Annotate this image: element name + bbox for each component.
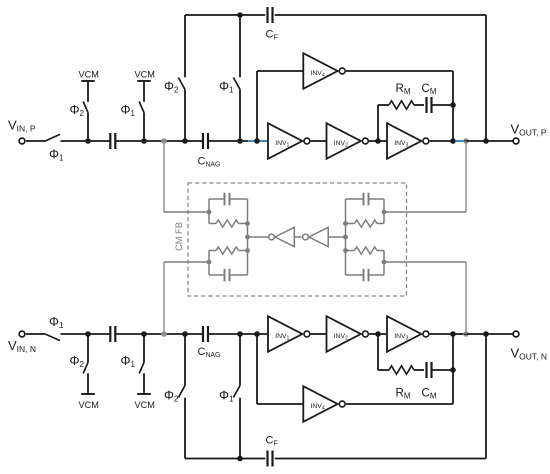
output terminal VOUT,N: [513, 331, 519, 337]
wire (gray, upper entry): [384, 211, 466, 213]
resistor RM: [389, 101, 414, 109]
wire (gray, CMFB feed to top line): [163, 141, 165, 212]
wire (gray, top output sense): [465, 141, 467, 212]
node: [237, 12, 243, 18]
node: [483, 331, 489, 337]
wire: [414, 369, 424, 371]
capacitor (CMFB lower): [363, 269, 365, 282]
wire: [275, 14, 486, 16]
wire: [452, 334, 454, 404]
wire: [465, 140, 514, 142]
svg-text:CM FB: CM FB: [174, 222, 184, 251]
wire: [432, 104, 454, 106]
svg-text:INV4: INV4: [311, 403, 325, 411]
node: [237, 138, 243, 144]
wire (gray): [230, 198, 248, 200]
node: [182, 331, 188, 337]
wire: [209, 140, 248, 142]
node: [85, 138, 91, 144]
svg-text:INV1: INV1: [275, 333, 289, 341]
node: [450, 138, 456, 144]
wire (gray): [230, 274, 248, 276]
wire: [369, 333, 387, 335]
capacitor CF: [266, 7, 268, 23]
inverter INV1: [268, 316, 302, 352]
wire (gray, CMFB feed to bottom line): [163, 262, 165, 334]
wire: [377, 334, 379, 370]
capacitor (CMFB upper): [224, 193, 226, 206]
svg-text:INV3: INV3: [394, 140, 408, 148]
switch Φ1 (input): [46, 134, 60, 140]
switch Φ1 (to VCM): [143, 334, 145, 362]
wire (gray): [248, 236, 269, 238]
svg-text:INV2: INV2: [334, 333, 348, 341]
wire: [257, 403, 303, 405]
switch Φ2 (to rail): [184, 398, 186, 459]
node: [141, 331, 147, 337]
capacitor (CMFB lower): [224, 269, 226, 282]
capacitor CF: [266, 451, 268, 467]
wire: [61, 333, 111, 335]
wire (gray): [208, 199, 210, 224]
node: [254, 331, 260, 337]
wire: [430, 140, 453, 142]
wire (gray): [383, 251, 385, 276]
output terminal VOUT,P: [513, 138, 519, 144]
inverter INV1: [268, 123, 302, 159]
CMFB block dashed boundary: [188, 183, 407, 296]
svg-text:INV2: INV2: [334, 140, 348, 148]
node: [483, 138, 489, 144]
svg-text:VCM: VCM: [135, 400, 155, 410]
sampling capacitor: [109, 326, 111, 342]
svg-text:INV4: INV4: [311, 70, 325, 78]
wire: [432, 369, 454, 371]
node: [182, 138, 188, 144]
wire: [369, 140, 387, 142]
resistor (CMFB upper): [209, 223, 216, 225]
switch Φ1 (to VCM): [143, 113, 145, 141]
svg-text:VCM: VCM: [135, 70, 155, 80]
VCM supply: [137, 393, 150, 395]
wire: [26, 333, 46, 335]
VCM supply: [81, 80, 94, 82]
svg-text:INV3: INV3: [394, 333, 408, 341]
wire (gray): [328, 236, 345, 238]
wire (blue): [248, 140, 268, 142]
inverter INV3: [387, 123, 421, 159]
wire: [465, 333, 514, 335]
svg-text:VCM: VCM: [79, 400, 99, 410]
CMFB tap node: [161, 331, 167, 337]
wire: [61, 140, 111, 142]
VCM supply: [137, 80, 150, 82]
node (CMFB): [382, 210, 387, 215]
wire (gray): [346, 274, 364, 276]
node (CMFB): [343, 221, 348, 226]
wire: [256, 334, 258, 404]
wire: [485, 334, 487, 459]
capacitor CNAG: [202, 326, 204, 342]
wire: [26, 140, 46, 142]
svg-text:VCM: VCM: [79, 70, 99, 80]
wire (gray): [346, 198, 364, 200]
node (CMFB): [245, 248, 250, 253]
resistor RM: [389, 366, 414, 374]
node: [85, 331, 91, 337]
resistor (CMFB lower): [346, 250, 355, 252]
switch Φ1 (to rail): [239, 398, 241, 459]
wire: [209, 333, 268, 335]
node: [375, 138, 381, 144]
inverter INV4: [303, 53, 337, 89]
wire (gray): [209, 198, 225, 200]
inverter INV2: [327, 123, 361, 159]
CMFB sense node: [463, 331, 469, 337]
node: [450, 331, 456, 337]
wire (blue): [455, 140, 465, 142]
node: [237, 456, 243, 462]
wire (gray): [369, 198, 385, 200]
switch Φ2 (to VCM): [87, 334, 89, 362]
wire (gray): [209, 274, 225, 276]
wire: [430, 333, 453, 335]
wire: [311, 140, 327, 142]
wire: [185, 14, 265, 16]
resistor (CMFB upper): [346, 223, 355, 225]
node: [237, 331, 243, 337]
node: [450, 367, 456, 373]
switch Φ2 (to rail): [184, 15, 186, 77]
wire (gray, center vertical): [345, 199, 347, 275]
capacitor CM: [425, 362, 427, 378]
wire: [452, 71, 454, 141]
node: [141, 138, 147, 144]
wire: [455, 333, 465, 335]
wire: [116, 140, 202, 142]
wire: [257, 70, 303, 72]
node: [375, 331, 381, 337]
CMFB inverter A: [275, 227, 294, 246]
switch Φ1 (to rail): [239, 15, 241, 77]
wire (gray, bottom output sense): [465, 262, 467, 334]
wire (gray, lower entry): [384, 261, 466, 263]
wire: [256, 71, 258, 141]
wire: [485, 15, 487, 141]
wire (gray): [208, 251, 210, 276]
wire: [378, 104, 389, 106]
input terminal VIN,P: [19, 138, 25, 144]
node (CMFB): [207, 260, 212, 265]
CMFB tap node: [161, 138, 167, 144]
wire (gray, upper entry): [164, 211, 209, 213]
resistor (CMFB lower): [209, 250, 216, 252]
node (CMFB): [245, 235, 250, 240]
wire: [275, 458, 486, 460]
switch Φ1 (input): [46, 334, 60, 340]
capacitor CM: [425, 97, 427, 113]
capacitor (CMFB upper): [363, 193, 365, 206]
capacitor CNAG: [202, 133, 204, 149]
node: [450, 102, 456, 108]
wire: [414, 104, 424, 106]
svg-text:INV1: INV1: [275, 140, 289, 148]
input terminal VIN,N: [19, 331, 25, 337]
inverter INV2: [327, 316, 361, 352]
node (CMFB): [343, 235, 348, 240]
node (CMFB): [382, 260, 387, 265]
wire (gray, center vertical): [247, 199, 249, 275]
node (CMFB): [245, 221, 250, 226]
wire: [185, 458, 265, 460]
wire: [378, 369, 389, 371]
wire: [116, 333, 202, 335]
inverter INV4: [303, 386, 337, 422]
switch Φ2 (to VCM): [87, 113, 89, 141]
CMFB sense node: [463, 138, 469, 144]
wire: [377, 105, 379, 141]
wire: [311, 333, 327, 335]
wire (gray): [383, 199, 385, 224]
VCM supply: [81, 393, 94, 395]
node (CMFB): [343, 248, 348, 253]
CMFB inverter B: [309, 227, 328, 246]
wire: [346, 403, 453, 405]
inverter INV3: [387, 316, 421, 352]
wire (gray): [369, 274, 385, 276]
wire (gray, lower entry): [164, 261, 209, 263]
wire (gray): [294, 236, 301, 238]
sampling capacitor: [109, 133, 111, 149]
wire: [346, 70, 453, 72]
node: [254, 138, 260, 144]
node (CMFB): [207, 210, 212, 215]
